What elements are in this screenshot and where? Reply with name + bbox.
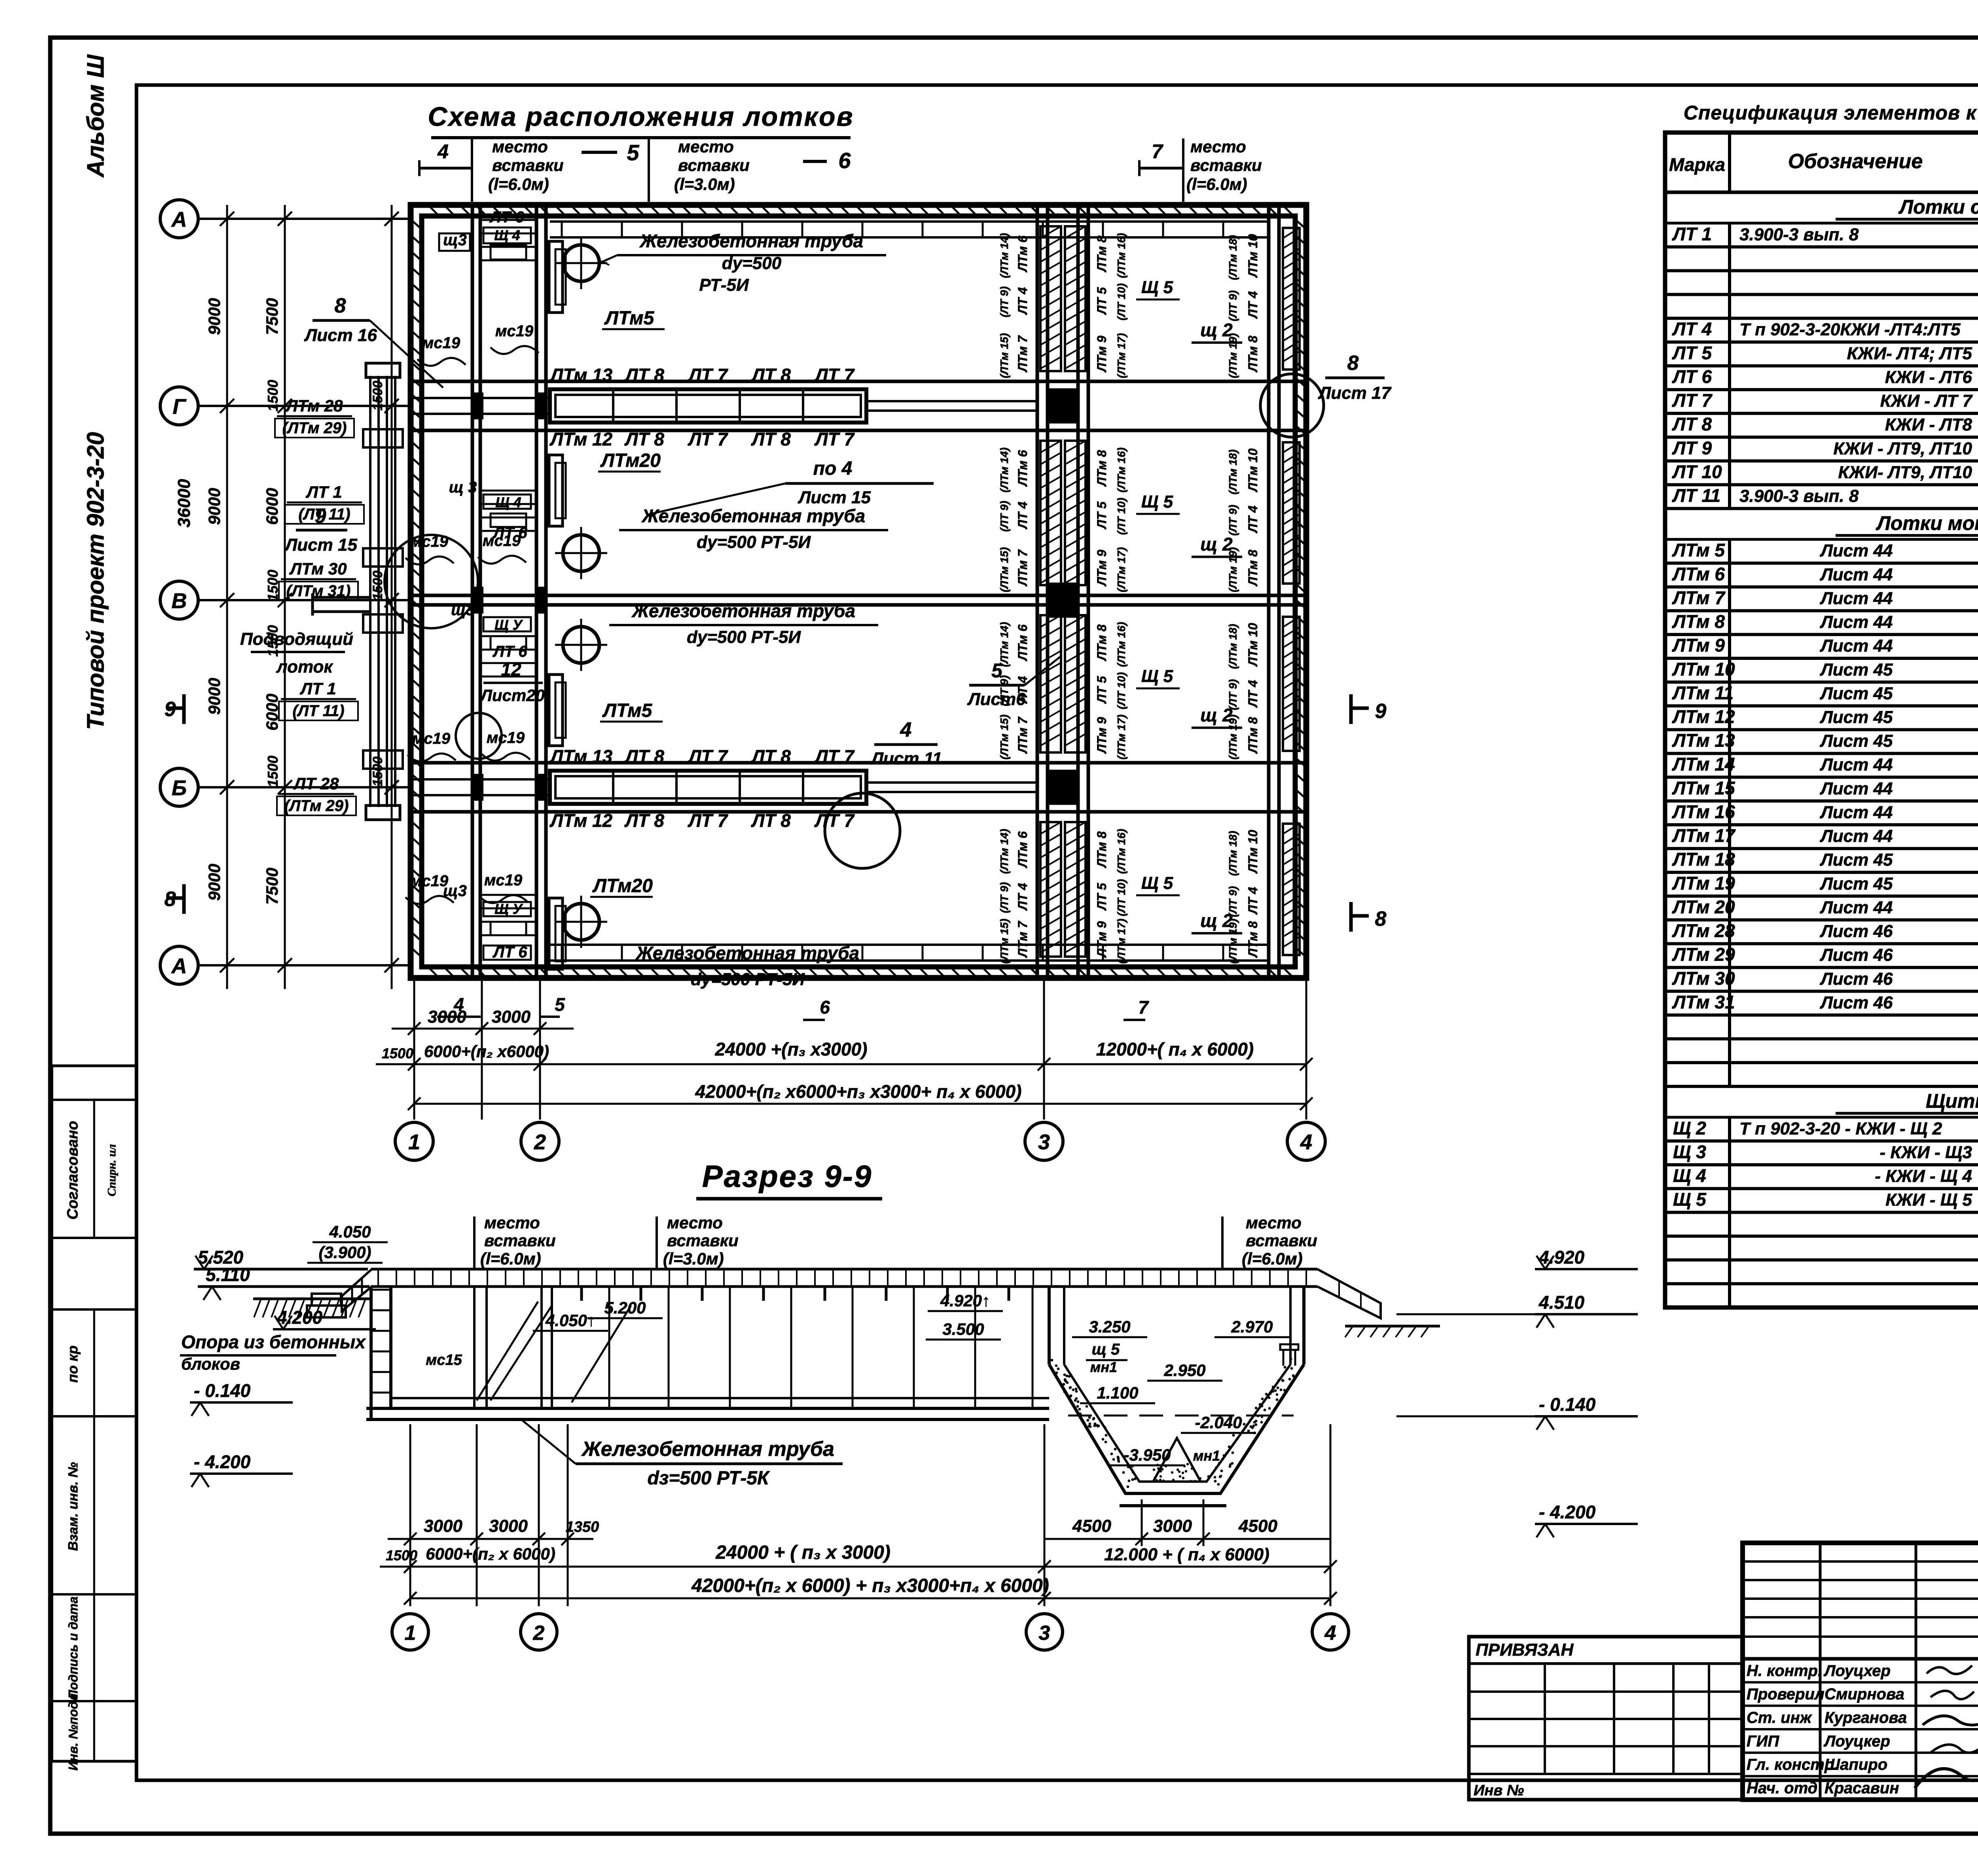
svg-text:1.100: 1.100	[1097, 1383, 1138, 1402]
svg-text:4.920↑: 4.920↑	[940, 1291, 990, 1310]
svg-text:ЛТм 6: ЛТм 6	[1016, 235, 1030, 272]
svg-text:мс19: мс19	[487, 729, 525, 747]
pipe label middle2	[609, 601, 878, 647]
svg-text:4: 4	[1324, 1622, 1336, 1645]
svg-text:ЛТ 5: ЛТ 5	[1672, 343, 1712, 363]
svg-text:ЛТм 6: ЛТм 6	[1016, 624, 1030, 661]
title block top grid	[1743, 1543, 1978, 1800]
svg-text:(ЛТм 18): (ЛТм 18)	[1227, 235, 1239, 280]
svg-text:Лист 44: Лист 44	[1820, 541, 1893, 561]
svg-text:(ЛТ 10): (ЛТ 10)	[1115, 879, 1127, 916]
svg-text:Лист 15: Лист 15	[284, 535, 357, 555]
svg-text:8: 8	[1347, 352, 1359, 375]
interior wall axis Г	[411, 381, 1306, 430]
svg-text:(ЛТ 10): (ЛТ 10)	[1115, 672, 1127, 709]
svg-text:ЛТ 8: ЛТ 8	[624, 810, 664, 831]
svg-text:Лист 45: Лист 45	[1820, 731, 1893, 751]
svg-text:КЖИ - Щ 5: КЖИ - Щ 5	[1885, 1190, 1972, 1210]
svg-text:ЛТм 8: ЛТм 8	[1095, 831, 1109, 868]
svg-text:(ЛТм 15): (ЛТм 15)	[998, 547, 1010, 592]
svg-text:Подпись и дата: Подпись и дата	[66, 1596, 80, 1699]
svg-text:ЛТ 6: ЛТ 6	[492, 643, 527, 660]
svg-text:Н. контр.: Н. контр.	[1747, 1662, 1822, 1679]
svg-text:ЛТм 30: ЛТм 30	[289, 559, 347, 578]
место вставки label (section)	[474, 1213, 556, 1269]
feeding channel (подводящий лоток)	[240, 363, 403, 820]
svg-text:Смирнова: Смирнова	[1825, 1686, 1904, 1703]
sheet reference 8 лист 16	[304, 294, 443, 388]
svg-text:ЛТм 8: ЛТм 8	[1095, 450, 1109, 487]
svg-text:ЛТ 7: ЛТ 7	[688, 810, 728, 831]
svg-text:ЛТм 7: ЛТм 7	[1016, 335, 1030, 372]
svg-text:5.110: 5.110	[206, 1264, 250, 1285]
svg-text:(l=3.0м): (l=3.0м)	[663, 1249, 724, 1268]
svg-text:Альбом Ш: Альбом Ш	[82, 54, 109, 178]
section tank body	[366, 1287, 1049, 1419]
svg-text:ЛТ 7: ЛТ 7	[814, 365, 855, 385]
svg-text:(ЛТм 15): (ЛТм 15)	[998, 919, 1010, 964]
svg-text:Лоуцкер: Лоуцкер	[1823, 1732, 1890, 1750]
svg-text:ЛТм 7: ЛТм 7	[1672, 587, 1726, 608]
svg-text:Щ 5: Щ 5	[1673, 1189, 1707, 1210]
section title Разрез 9-9	[696, 1159, 882, 1199]
svg-text:Щ 4: Щ 4	[1673, 1165, 1706, 1186]
svg-text:ЛТм 12: ЛТм 12	[549, 810, 613, 831]
svg-text:Согласовано: Согласовано	[64, 1121, 81, 1220]
svg-text:(ЛТм 15): (ЛТм 15)	[998, 333, 1010, 378]
svg-text:ЛТм 13: ЛТм 13	[549, 746, 613, 767]
svg-text:6: 6	[838, 148, 851, 173]
svg-text:(ЛТм 18): (ЛТм 18)	[1227, 831, 1239, 876]
svg-text:ЛТ 1: ЛТ 1	[1672, 224, 1712, 244]
joint band tray plans + rotated labels	[998, 226, 1127, 378]
svg-text:Шапиро: Шапиро	[1825, 1756, 1887, 1774]
svg-text:вставки: вставки	[1190, 156, 1262, 174]
svg-text:6000+(п₂ x 6000): 6000+(п₂ x 6000)	[426, 1544, 555, 1563]
channel label ЛТм 28	[275, 396, 354, 438]
svg-text:12000+( п₄ x 6000): 12000+( п₄ x 6000)	[1096, 1039, 1254, 1059]
svg-text:5: 5	[555, 994, 565, 1015]
svg-text:ЛТ 4: ЛТ 4	[1246, 291, 1260, 319]
svg-text:(ЛТм 17): (ЛТм 17)	[1115, 714, 1127, 760]
svg-text:ЛТ 4: ЛТ 4	[1246, 680, 1260, 708]
svg-text:ЛТм 9: ЛТм 9	[1672, 635, 1725, 656]
svg-text:ГИП: ГИП	[1747, 1732, 1779, 1750]
svg-text:ЛТм 10: ЛТм 10	[1672, 659, 1735, 679]
svg-text:ЛТм 19: ЛТм 19	[1672, 873, 1735, 893]
svg-text:5: 5	[627, 140, 639, 165]
svg-text:место: место	[484, 1213, 540, 1232]
svg-text:dу=500 РТ-5И: dу=500 РТ-5И	[687, 627, 801, 647]
joint band gates	[1048, 389, 1078, 804]
svg-text:3.900-3 вып. 8: 3.900-3 вып. 8	[1739, 487, 1859, 506]
title block frame	[1743, 1543, 1978, 1800]
svg-text:ЛТм5: ЛТм5	[602, 700, 653, 721]
svg-text:1500: 1500	[382, 1045, 413, 1061]
svg-text:Железобетонная труба: Железобетонная труба	[639, 231, 863, 251]
svg-text:ЛТм 31: ЛТм 31	[1672, 992, 1735, 1012]
svg-text:Лист 44: Лист 44	[1820, 803, 1893, 822]
pipe circles железобетонная труба	[555, 237, 607, 289]
svg-text:dз=500 РТ-5К: dз=500 РТ-5К	[648, 1468, 770, 1489]
svg-text:вставки: вставки	[667, 1231, 739, 1250]
title block signature rows	[1743, 1659, 1978, 1800]
svg-text:4.050: 4.050	[329, 1222, 371, 1241]
svg-text:ЛТм 7: ЛТм 7	[1016, 920, 1030, 958]
spec table vertical lines	[1730, 192, 1978, 1308]
svg-text:(ЛТ 9): (ЛТ 9)	[998, 675, 1010, 706]
svg-text:ЛТ 5: ЛТ 5	[1095, 501, 1109, 529]
svg-text:ЛТм 9: ЛТм 9	[1095, 335, 1109, 372]
axis circle А	[160, 200, 411, 238]
channel label ЛТ 1	[279, 679, 358, 720]
svg-text:ЛТм 6: ЛТм 6	[1016, 450, 1030, 487]
svg-text:КЖИ - ЛТ9, ЛТ10: КЖИ - ЛТ9, ЛТ10	[1833, 439, 1972, 458]
svg-text:вставки: вставки	[492, 156, 564, 174]
svg-text:ЛТм 13: ЛТм 13	[1672, 730, 1735, 751]
место вставки label	[472, 137, 564, 202]
svg-text:Ст. инж: Ст. инж	[1747, 1709, 1813, 1726]
svg-text:4.050↑: 4.050↑	[545, 1311, 595, 1330]
svg-text:(ЛТ 9): (ЛТ 9)	[1227, 290, 1239, 321]
svg-text:(ЛТ 11): (ЛТ 11)	[298, 506, 350, 523]
svg-text:ЛТм 8: ЛТм 8	[1672, 611, 1725, 632]
svg-text:1500: 1500	[265, 570, 281, 601]
svg-text:ЛТм 6: ЛТм 6	[1672, 564, 1725, 584]
sheet reference 5 лист 6	[967, 657, 1060, 709]
svg-text:щ 2: щ 2	[1200, 910, 1233, 931]
svg-text:ЛТм 17: ЛТм 17	[1672, 825, 1736, 846]
svg-text:5.200: 5.200	[604, 1298, 646, 1317]
svg-text:щ 3: щ 3	[449, 479, 477, 496]
svg-text:Лист 45: Лист 45	[1820, 660, 1893, 679]
svg-text:Железобетонная труба: Железобетонная труба	[581, 1438, 834, 1461]
svg-text:щ 2: щ 2	[1200, 320, 1233, 340]
svg-text:Опора из бетонных: Опора из бетонных	[181, 1332, 366, 1352]
svg-text:ЛТм 8: ЛТм 8	[1246, 921, 1260, 958]
svg-text:(l=6.0м): (l=6.0м)	[488, 175, 549, 193]
svg-text:по 4: по 4	[813, 458, 853, 479]
svg-text:Лист 46: Лист 46	[1820, 993, 1893, 1012]
svg-text:(ЛТ 10): (ЛТ 10)	[1115, 283, 1127, 320]
мс19 leader labels	[417, 334, 466, 366]
svg-text:ЛТ 4: ЛТ 4	[1016, 676, 1030, 704]
svg-text:Щ У: Щ У	[494, 617, 523, 633]
svg-text:3: 3	[1038, 1130, 1050, 1154]
svg-text:9000: 9000	[205, 488, 224, 525]
svg-text:(ЛТм 16): (ЛТм 16)	[1115, 622, 1127, 667]
corridor mid assemblies	[449, 479, 531, 660]
svg-text:dу=500 РТ-5И: dу=500 РТ-5И	[691, 970, 805, 989]
top tick 7	[1139, 140, 1183, 176]
svg-text:3000: 3000	[489, 1516, 528, 1536]
svg-text:мс19: мс19	[483, 532, 521, 550]
svg-text:Схема расположения лотков: Схема расположения лотков	[428, 102, 854, 132]
svg-text:ЛТм 10: ЛТм 10	[1246, 234, 1260, 278]
svg-text:блоков: блоков	[181, 1355, 240, 1373]
svg-text:КЖИ - ЛТ 7: КЖИ - ЛТ 7	[1880, 391, 1973, 411]
svg-text:4: 4	[453, 994, 464, 1015]
svg-text:ЛТ 8: ЛТ 8	[624, 365, 664, 385]
svg-text:ЛТ 4: ЛТ 4	[1016, 502, 1030, 529]
svg-text:Т п 902-3-20 - КЖИ - Щ 2: Т п 902-3-20 - КЖИ - Щ 2	[1739, 1119, 1942, 1138]
svg-text:3.500: 3.500	[942, 1320, 984, 1338]
pipe label bottom	[613, 943, 882, 989]
svg-text:9000: 9000	[205, 864, 224, 900]
svg-text:мс19: мс19	[422, 334, 460, 352]
pit dim extension lines	[1142, 1499, 1203, 1546]
svg-text:ЛТ 1: ЛТ 1	[305, 483, 342, 501]
svg-text:Щ У: Щ У	[494, 901, 523, 917]
svg-text:Лист 44: Лист 44	[1820, 612, 1893, 632]
svg-text:ЛТм 8: ЛТм 8	[1246, 717, 1260, 754]
svg-text:6000: 6000	[263, 694, 281, 730]
level marks right of section	[1535, 1247, 1638, 1269]
margin stamp table	[52, 1066, 136, 1770]
место вставки label (section)	[1222, 1213, 1317, 1269]
svg-text:ЛТм 6: ЛТм 6	[1016, 831, 1030, 868]
svg-text:Щ 4: Щ 4	[494, 227, 520, 243]
svg-text:(l=6.0м): (l=6.0м)	[1242, 1249, 1303, 1268]
svg-text:мс19: мс19	[410, 872, 449, 890]
svg-text:ЛТм20: ЛТм20	[600, 450, 661, 471]
svg-text:Спирн. ил: Спирн. ил	[105, 1144, 118, 1196]
corridor bottom assemblies	[443, 882, 531, 961]
section pipe label	[522, 1420, 843, 1489]
svg-text:Щ 5: Щ 5	[1141, 874, 1173, 893]
plan title	[428, 102, 854, 173]
svg-text:Инв. №подл: Инв. №подл	[66, 1693, 80, 1770]
svg-text:- КЖИ - Щ 4: - КЖИ - Щ 4	[1875, 1167, 1972, 1186]
svg-text:(ЛТм 14): (ЛТм 14)	[998, 447, 1010, 493]
svg-text:3: 3	[1039, 1622, 1050, 1645]
svg-text:Лист 45: Лист 45	[1820, 850, 1893, 870]
svg-text:(ЛТм 15): (ЛТм 15)	[998, 714, 1010, 760]
svg-text:3.900-3 вып. 8: 3.900-3 вып. 8	[1739, 225, 1859, 244]
svg-text:(ЛТм 14): (ЛТм 14)	[998, 622, 1010, 667]
svg-text:Лист 45: Лист 45	[1820, 874, 1893, 893]
svg-text:7: 7	[1138, 997, 1149, 1018]
svg-text:ЛТ 8: ЛТ 8	[751, 746, 791, 767]
svg-text:ЛТ 4: ЛТ 4	[1016, 287, 1030, 315]
svg-text:42000+(п₂ x 6000) + п₃ x3000+п: 42000+(п₂ x 6000) + п₃ x3000+п₄ x 6000)	[691, 1575, 1049, 1596]
bottom distribution channel	[550, 945, 1269, 961]
svg-text:(ЛТм 16): (ЛТм 16)	[1115, 829, 1127, 874]
corridor assembly labels	[439, 208, 531, 260]
svg-text:- 4.200: - 4.200	[1539, 1502, 1596, 1522]
svg-text:ЛТм 8: ЛТм 8	[1095, 624, 1109, 661]
svg-text:ЛТм 18: ЛТм 18	[1672, 849, 1735, 870]
svg-text:ЛТм 8: ЛТм 8	[1095, 235, 1109, 272]
svg-text:(3.900): (3.900)	[318, 1243, 371, 1262]
svg-text:по кр: по кр	[64, 1345, 81, 1383]
svg-text:4: 4	[437, 140, 449, 163]
svg-text:Лист 15: Лист 15	[798, 488, 871, 507]
svg-text:ЛТм 29: ЛТм 29	[1672, 944, 1735, 965]
svg-text:вставки: вставки	[678, 156, 750, 174]
section bottom dimension chains	[380, 1424, 1337, 1606]
svg-text:Красавин: Красавин	[1825, 1779, 1899, 1797]
svg-text:24000 +(п₃ x3000): 24000 +(п₃ x3000)	[715, 1039, 868, 1059]
svg-text:9000: 9000	[205, 298, 224, 335]
svg-text:dу=500: dу=500	[722, 254, 782, 273]
section axis circle 2	[521, 1614, 557, 1650]
sheet reference 9 лист 15	[284, 505, 357, 555]
svg-text:вставки: вставки	[1246, 1231, 1317, 1250]
pipe label middle	[619, 506, 888, 552]
svg-text:Лист 44: Лист 44	[1820, 779, 1893, 798]
svg-text:(ЛТ 9): (ЛТ 9)	[1227, 505, 1239, 536]
svg-text:3000: 3000	[1153, 1516, 1192, 1536]
svg-text:мн1: мн1	[1090, 1359, 1117, 1375]
svg-text:4500: 4500	[1072, 1516, 1111, 1536]
svg-text:4.920: 4.920	[1538, 1247, 1585, 1268]
svg-text:Т п 902-3-20КЖИ -ЛТ4:ЛТ5: Т п 902-3-20КЖИ -ЛТ4:ЛТ5	[1739, 320, 1961, 339]
svg-text:ЛТ 28: ЛТ 28	[293, 774, 339, 793]
corridor rungs and gates	[472, 220, 546, 935]
svg-text:щ 2: щ 2	[1200, 534, 1233, 555]
lower tray row ЛТм13 ЛТ8 ЛТ7 ЛТ8 ЛТ7	[411, 746, 1037, 831]
svg-text:4.200: 4.200	[277, 1307, 323, 1328]
svg-text:Лотки монолитные железобетон: Лотки монолитные железобетонные	[1876, 512, 1978, 534]
svg-text:Щ 2: Щ 2	[1673, 1118, 1706, 1138]
svg-text:1500: 1500	[386, 1547, 417, 1563]
pipe label top	[599, 231, 886, 295]
svg-text:А: А	[171, 208, 187, 231]
svg-text:место: место	[1190, 137, 1246, 156]
svg-text:Щ 3: Щ 3	[1673, 1141, 1706, 1162]
svg-text:1500: 1500	[370, 570, 385, 601]
svg-text:ЛТм 9: ЛТм 9	[1095, 921, 1109, 958]
svg-text:Лист20: Лист20	[479, 686, 545, 705]
svg-text:щ 5: щ 5	[1092, 1341, 1120, 1358]
svg-text:ЛТм 30: ЛТм 30	[1672, 968, 1735, 989]
svg-text:место: место	[678, 137, 734, 156]
svg-text:Нач. отд: Нач. отд	[1747, 1779, 1817, 1797]
right band tray plans + rotated labels	[1136, 228, 1300, 378]
gate plates ЛТм5 ЛТм20	[549, 241, 665, 329]
expansion joint band walls	[1037, 205, 1088, 978]
svg-text:КЖИ- ЛТ4; ЛТ5: КЖИ- ЛТ4; ЛТ5	[1847, 344, 1972, 363]
svg-text:ЛТ 4: ЛТ 4	[1246, 887, 1260, 915]
svg-text:1500: 1500	[370, 756, 385, 786]
svg-text:12: 12	[501, 659, 521, 680]
ground line + hatch left	[253, 1299, 1440, 1337]
svg-text:dу=500 РТ-5И: dу=500 РТ-5И	[697, 532, 811, 552]
svg-text:ЛТ 7: ЛТ 7	[688, 365, 728, 385]
svg-text:Взам. инв. №: Взам. инв. №	[66, 1462, 81, 1551]
svg-text:9: 9	[1375, 700, 1387, 723]
svg-text:1500: 1500	[265, 380, 281, 411]
svg-text:ЛТ 7: ЛТ 7	[1672, 390, 1713, 411]
svg-text:ЛТм 8: ЛТм 8	[1246, 550, 1260, 586]
svg-text:Обозначение: Обозначение	[1788, 150, 1923, 173]
svg-text:ПРИВЯЗАН: ПРИВЯЗАН	[1476, 1640, 1574, 1660]
svg-text:щ 2: щ 2	[1200, 705, 1233, 726]
svg-text:место: место	[492, 137, 548, 156]
svg-text:36000: 36000	[174, 479, 194, 527]
svg-text:ЛТм 13: ЛТм 13	[549, 365, 613, 385]
svg-text:ЛТ 8: ЛТ 8	[1672, 414, 1712, 434]
channel label ЛТм 30	[279, 559, 358, 601]
section marks Т9 Т8 right	[1351, 694, 1387, 932]
svg-text:ЛТм 10: ЛТм 10	[1246, 830, 1260, 874]
svg-text:Инв №: Инв №	[1474, 1782, 1524, 1799]
svg-text:8: 8	[1375, 908, 1387, 930]
svg-text:1500: 1500	[370, 381, 385, 411]
svg-text:ЛТ 7: ЛТ 7	[814, 810, 855, 831]
svg-text:6000+(п₂ x6000): 6000+(п₂ x6000)	[424, 1042, 549, 1061]
svg-text:ЛТм 20: ЛТм 20	[1672, 896, 1735, 917]
svg-text:ЛТм 14: ЛТм 14	[1672, 754, 1735, 775]
svg-text:ЛТм20: ЛТм20	[592, 875, 653, 896]
svg-text:мс15: мс15	[426, 1352, 462, 1368]
svg-text:ЛТ 6: ЛТ 6	[489, 208, 524, 226]
svg-text:ЛТ 4: ЛТ 4	[1016, 883, 1030, 911]
svg-text:Лист 46: Лист 46	[1820, 946, 1893, 965]
spec table title	[1684, 102, 1978, 124]
spec table header	[1665, 133, 1978, 192]
top distribution channel	[550, 222, 1269, 237]
svg-text:ЛТ 7: ЛТ 7	[688, 429, 728, 449]
svg-text:Лотки сборные железобетонные: Лотки сборные железобетонные	[1898, 196, 1978, 218]
svg-text:ЛТ 6: ЛТ 6	[1672, 366, 1712, 387]
section axis circle 4	[1312, 1614, 1349, 1650]
svg-text:24000 + ( п₃ x 3000): 24000 + ( п₃ x 3000)	[715, 1542, 890, 1563]
svg-text:9000: 9000	[205, 678, 224, 714]
section axis circle 3	[1026, 1614, 1063, 1650]
svg-text:вставки: вставки	[484, 1231, 556, 1250]
svg-text:Лоуцхер: Лоуцхер	[1823, 1662, 1891, 1679]
svg-text:ЛТ 8: ЛТ 8	[751, 429, 791, 449]
svg-text:Марка: Марка	[1669, 154, 1725, 175]
svg-text:ЛТ 8: ЛТ 8	[751, 365, 791, 385]
svg-text:Лист 44: Лист 44	[1820, 826, 1893, 846]
svg-text:(ЛТм 17): (ЛТм 17)	[1115, 547, 1127, 592]
interior wall axis В	[411, 595, 1306, 605]
svg-text:(ЛТм 29): (ЛТм 29)	[282, 419, 347, 437]
svg-text:7500: 7500	[263, 868, 281, 904]
svg-text:(ЛТм 18): (ЛТм 18)	[1227, 624, 1239, 669]
svg-text:6000: 6000	[263, 488, 281, 525]
svg-text:(ЛТм 14): (ЛТм 14)	[998, 233, 1010, 278]
svg-text:(ЛТм 17): (ЛТм 17)	[1115, 333, 1127, 378]
svg-text:7500: 7500	[263, 298, 281, 335]
svg-text:2.950: 2.950	[1163, 1361, 1205, 1380]
опора label	[180, 1332, 366, 1373]
svg-text:ЛТ 1: ЛТ 1	[299, 679, 336, 698]
svg-text:ЛТ 11: ЛТ 11	[1672, 485, 1720, 506]
svg-text:ЛТ 5: ЛТ 5	[1095, 287, 1109, 315]
svg-text:(ЛТм 17): (ЛТм 17)	[1115, 919, 1127, 964]
svg-text:ЛТм 10: ЛТм 10	[1246, 623, 1260, 667]
left dimension chains	[174, 205, 399, 989]
svg-text:1: 1	[405, 1622, 416, 1645]
plan axis circle 4	[1287, 1122, 1325, 1160]
svg-text:(ЛТ 11): (ЛТ 11)	[292, 702, 344, 720]
svg-text:Лист 46: Лист 46	[1820, 969, 1893, 989]
right end band walls	[1269, 205, 1279, 978]
svg-text:Г: Г	[172, 395, 187, 419]
svg-text:ЛТм 12: ЛТм 12	[1672, 706, 1735, 727]
svg-text:ЛТм 8: ЛТм 8	[1246, 335, 1260, 372]
svg-text:ЛТм5: ЛТм5	[604, 308, 655, 329]
svg-text:ЛТ 10: ЛТ 10	[1672, 461, 1722, 482]
axis circle В	[160, 581, 411, 619]
svg-text:ЛТм 28: ЛТм 28	[1672, 921, 1735, 941]
svg-text:Щ 4: Щ 4	[495, 494, 521, 510]
svg-text:КЖИ- ЛТ9, ЛТ10: КЖИ- ЛТ9, ЛТ10	[1838, 462, 1972, 482]
